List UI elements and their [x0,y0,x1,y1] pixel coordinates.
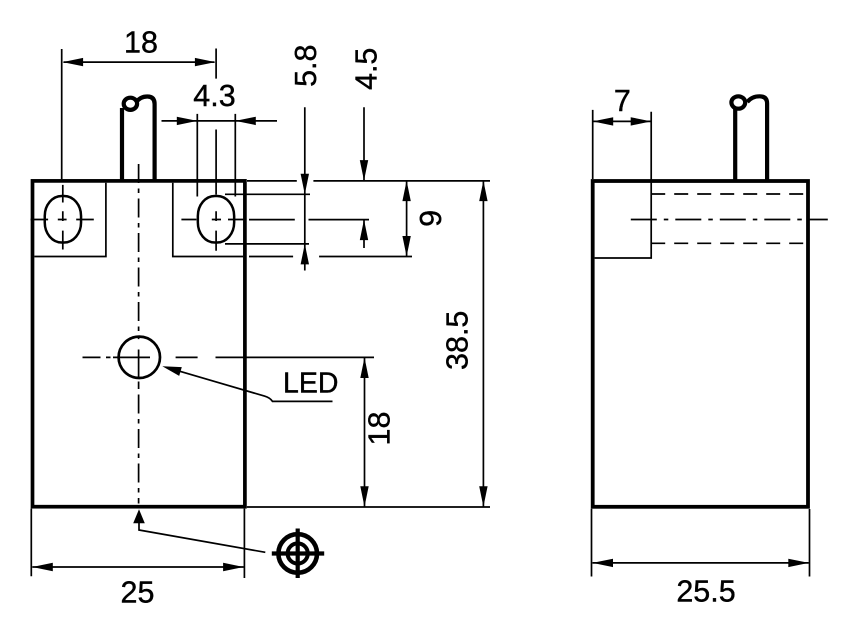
svg-text:4.3: 4.3 [193,79,235,113]
svg-text:25.5: 25.5 [676,574,735,608]
svg-text:18: 18 [124,25,158,59]
svg-text:7: 7 [614,84,631,118]
svg-text:25: 25 [121,576,155,610]
svg-text:38.5: 38.5 [441,311,475,370]
svg-text:18: 18 [363,412,397,446]
svg-text:4.5: 4.5 [350,48,384,90]
svg-text:LED: LED [283,368,338,400]
svg-text:9: 9 [414,210,448,227]
svg-text:5.8: 5.8 [289,44,323,86]
